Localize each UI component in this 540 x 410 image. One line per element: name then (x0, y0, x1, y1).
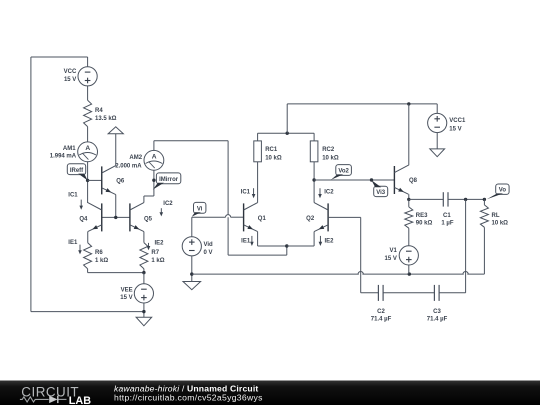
svg-text:1 kΩ: 1 kΩ (151, 258, 164, 264)
svg-text:Q1: Q1 (258, 216, 267, 222)
svg-text:90 kΩ: 90 kΩ (416, 220, 433, 226)
svg-text:Vo: Vo (499, 188, 507, 194)
svg-text:R4: R4 (95, 108, 103, 114)
svg-text:10 kΩ: 10 kΩ (492, 220, 509, 226)
svg-text:AM2: AM2 (129, 155, 142, 161)
svg-text:IE1: IE1 (68, 240, 78, 246)
svg-text:2.000 mA: 2.000 mA (115, 163, 142, 169)
svg-text:71.4 µF: 71.4 µF (371, 316, 392, 322)
svg-text:Vid: Vid (204, 242, 214, 248)
svg-text:RL: RL (492, 213, 500, 219)
svg-text:Q8: Q8 (409, 178, 418, 184)
svg-text:15 V: 15 V (120, 295, 132, 301)
svg-text:1 µF: 1 µF (441, 221, 453, 227)
svg-text:10 kΩ: 10 kΩ (322, 156, 339, 162)
svg-text:IE2: IE2 (155, 240, 165, 246)
svg-text:VEE: VEE (121, 287, 133, 293)
svg-text:VCC1: VCC1 (449, 118, 466, 124)
svg-text:Q4: Q4 (79, 217, 88, 223)
svg-text:R6: R6 (95, 250, 103, 256)
svg-text:V1: V1 (390, 248, 398, 254)
svg-text:1.994 mA: 1.994 mA (50, 154, 77, 160)
svg-text:Q2: Q2 (306, 216, 315, 222)
svg-text:C1: C1 (443, 213, 451, 219)
svg-text:IC2: IC2 (163, 201, 173, 207)
svg-text:Vi3: Vi3 (376, 190, 386, 196)
svg-text:A: A (152, 154, 157, 161)
svg-text:0 V: 0 V (204, 250, 213, 256)
svg-text:A: A (85, 145, 90, 152)
svg-text:Q5: Q5 (144, 216, 153, 222)
svg-text:IC2: IC2 (324, 189, 334, 195)
svg-text:AM1: AM1 (63, 146, 76, 152)
svg-text:71.4 µF: 71.4 µF (427, 316, 448, 322)
svg-text:LAB: LAB (69, 395, 91, 405)
svg-text:RC1: RC1 (265, 147, 278, 153)
svg-text:http://circuitlab.com/cv52a5yg: http://circuitlab.com/cv52a5yg36wys (114, 392, 263, 402)
svg-text:Vi: Vi (197, 206, 203, 212)
svg-text:IReff: IReff (70, 168, 84, 174)
svg-text:VCC: VCC (64, 69, 77, 75)
svg-text:R7: R7 (151, 250, 159, 256)
svg-text:15 V: 15 V (385, 256, 397, 262)
svg-text:15 V: 15 V (449, 127, 461, 133)
svg-text:IC1: IC1 (68, 193, 78, 199)
svg-text:IE2: IE2 (325, 239, 335, 245)
svg-text:IE1: IE1 (241, 239, 251, 245)
svg-text:Q6: Q6 (116, 179, 125, 185)
svg-text:RE3: RE3 (416, 213, 428, 219)
svg-text:C2: C2 (377, 309, 385, 315)
svg-text:13.5 kΩ: 13.5 kΩ (95, 116, 117, 122)
svg-text:Vo2: Vo2 (338, 169, 349, 175)
svg-text:IC1: IC1 (241, 189, 251, 195)
svg-text:RC2: RC2 (322, 147, 335, 153)
svg-text:1 kΩ: 1 kΩ (95, 258, 108, 264)
svg-text:C3: C3 (433, 309, 441, 315)
svg-text:15 V: 15 V (64, 77, 76, 83)
svg-text:10 kΩ: 10 kΩ (265, 156, 282, 162)
svg-text:IMirror: IMirror (159, 177, 179, 183)
